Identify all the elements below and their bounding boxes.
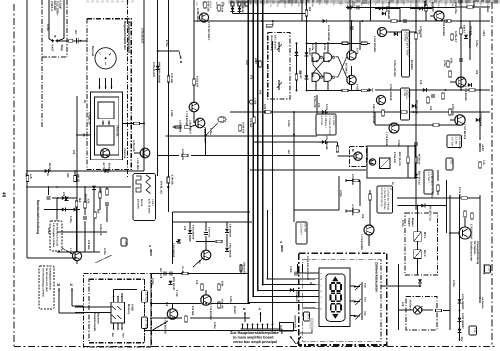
svg-text:2 695-38 1717: 2 695-38 1717: [203, 127, 206, 143]
display pin numbers: [320, 273, 323, 310]
wire vertical V10: [193, 0, 195, 103]
svg-text:47k: 47k: [317, 103, 320, 108]
junction J2: [26, 170, 28, 172]
svg-text:BZX 55-C10: BZX 55-C10: [398, 152, 401, 166]
wire lamp right: [422, 309, 433, 311]
resistor R114: [94, 212, 97, 218]
junction mo feed: [417, 205, 419, 207]
svg-text:C.78 563: C.78 563: [431, 188, 434, 199]
diode D70: [188, 230, 192, 234]
svg-text:0.002 1N4148: 0.002 1N4148: [172, 243, 175, 258]
capacitor C82: [295, 272, 297, 276]
tag LE7023 a: [142, 291, 148, 303]
svg-text:Schalttransistor: Schalttransistor: [470, 241, 473, 261]
wire bm h2: [150, 303, 201, 305]
svg-text:47k: 47k: [475, 70, 478, 75]
resistor R23b: [167, 76, 170, 82]
wire vertical V18: [301, 0, 303, 21]
wire vertical bus V13: [257, 0, 259, 291]
svg-text:Regelautomatik der: Regelautomatik der: [123, 21, 127, 51]
wire H down: [71, 300, 73, 306]
arrow right edge up: [479, 296, 481, 303]
junction disp1: [267, 278, 269, 280]
wire T81 up: [205, 290, 207, 295]
seven segment digit 2: [331, 293, 341, 301]
junction jt23: [257, 20, 259, 22]
wire T31 collector: [351, 66, 353, 75]
wire stub A2: [346, 210, 360, 212]
scan smudge band top: [228, 0, 500, 4]
counter module inner dash-dot box: [302, 260, 381, 342]
svg-text:0.78u BA127: 0.78u BA127: [152, 62, 155, 78]
svg-text:1N4148: 1N4148: [48, 163, 51, 173]
wire memory top v1: [113, 290, 115, 297]
wire T45 base: [450, 119, 455, 121]
svg-text:6V: 6V: [83, 100, 86, 103]
wire display in 2: [263, 284, 316, 286]
wire sw feed 2: [350, 300, 354, 302]
svg-text:870k: 870k: [221, 281, 224, 287]
svg-text:47k 563: 47k 563: [87, 240, 90, 250]
svg-text:Umschaltung: Umschaltung: [270, 35, 273, 51]
wire cl v5: [226, 222, 228, 228]
wire v24 down: [415, 130, 417, 210]
tape head assembly inner box: [95, 97, 119, 155]
junction gates6: [296, 90, 298, 92]
wire T30 collector upper: [351, 21, 353, 43]
resistor R41: [425, 5, 428, 11]
center callout box: [316, 114, 336, 136]
svg-text:5 008: 5 008: [451, 2, 454, 8]
resistor R31: [295, 74, 298, 80]
junction jt12: [293, 134, 295, 136]
wire head left stub: [77, 134, 91, 136]
svg-text:7 764 BC548C: 7 764 BC548C: [442, 20, 445, 36]
diode D11b: [104, 169, 108, 173]
memory switch block S80: [111, 302, 125, 323]
junction jt13: [293, 111, 295, 113]
wire band v3: [76, 207, 78, 252]
wire head right stub: [123, 123, 145, 125]
svg-text:4.7M 63k: 4.7M 63k: [171, 175, 174, 186]
resistor R65: [265, 111, 271, 114]
wire mo v3: [417, 259, 419, 276]
svg-text:0.78u 47k: 0.78u 47k: [451, 104, 454, 116]
svg-text:Ein: Ein: [111, 333, 114, 337]
wire y7 right: [455, 6, 490, 8]
resistor R63: [239, 125, 242, 131]
svg-text:40: 40: [2, 192, 7, 198]
display outer box: [319, 268, 350, 327]
capacitor C31: [357, 6, 359, 10]
capacitor C115: [83, 217, 87, 219]
svg-text:Doppel-: Doppel-: [408, 218, 411, 227]
motor dash-dot box: [350, 147, 367, 167]
svg-text:0.78u: 0.78u: [401, 220, 404, 227]
svg-text:4n7 0.78: 4n7 0.78: [159, 268, 162, 279]
junction jt5b: [361, 20, 363, 22]
svg-text:C10: C10: [488, 267, 491, 272]
resistor R72: [369, 194, 372, 200]
wire motor left: [338, 155, 354, 157]
svg-text:LA 1: LA 1: [420, 306, 423, 312]
wire d91 rail: [398, 205, 447, 207]
diode D93: [458, 318, 462, 322]
capacitor C41: [459, 59, 463, 61]
arrow counter bl: [297, 336, 301, 344]
svg-text:5V: 5V: [279, 325, 282, 328]
svg-text:26.3mV 163: 26.3mV 163: [366, 148, 369, 161]
wire vertical bus V1: [26, 0, 28, 187]
svg-text:5 008: 5 008: [289, 266, 292, 273]
transistor T42: [456, 77, 466, 87]
wire gates bottom bus: [307, 90, 371, 92]
mains module dash-dot bottom edge: [42, 56, 67, 58]
svg-text:Systemsch.: Systemsch.: [294, 315, 297, 329]
terminal tick A1: [345, 179, 347, 182]
wire R120 down: [167, 183, 169, 196]
junction jt10: [415, 111, 417, 113]
svg-text:0.78u 47k 563: 0.78u 47k 563: [393, 60, 396, 77]
terminal dot R120: [167, 186, 169, 188]
wire band v1: [93, 190, 95, 212]
svg-text:LJ40: LJ40: [124, 240, 127, 246]
resistor R33: [342, 89, 348, 92]
nand gate G4: [324, 73, 332, 81]
diode D92: [458, 299, 462, 303]
resistor R82: [201, 284, 204, 290]
wire stub A1: [346, 180, 360, 182]
wire branch B: [158, 50, 179, 52]
wire vertical V3: [63, 0, 65, 39]
diode D43: [412, 104, 416, 108]
resistor R64: [253, 117, 256, 123]
diode D64: [169, 281, 173, 285]
svg-text:100u 0.47: 100u 0.47: [243, 262, 246, 274]
counter module outer dash-dot box: [299, 253, 387, 345]
lamp dash-dot box: [406, 297, 437, 331]
wire v A14: [369, 200, 371, 225]
arrow node A bottom: [259, 312, 261, 322]
wire band row1: [52, 197, 77, 199]
resistor R120: [167, 177, 170, 183]
svg-text:T412: T412: [304, 2, 307, 8]
svg-text:4n7: 4n7: [74, 30, 77, 35]
junction disp4: [252, 296, 254, 298]
wire right col v: [469, 21, 471, 60]
svg-text:LE 7024: LE 7024: [145, 319, 148, 329]
transistor T51: [201, 250, 211, 260]
svg-text:47k: 47k: [250, 75, 253, 80]
frame left dash-dot border: [13, 4, 15, 346]
wire sw feed 1: [350, 285, 354, 287]
svg-text:0.78u: 0.78u: [46, 24, 49, 31]
callout box multiline: [377, 186, 393, 213]
svg-text:1 741 2N3...: 1 741 2N3...: [136, 158, 139, 172]
tag in counter: [304, 312, 310, 321]
frame right dash-dot border: [491, 2, 493, 347]
diode D8: [322, 140, 326, 144]
switch counter S3: [354, 314, 361, 320]
svg-text:680: 680: [97, 209, 100, 214]
display down triangle: [332, 314, 338, 319]
wire right v stub: [415, 125, 417, 140]
svg-text:0.47: 0.47: [245, 60, 248, 66]
wire vertical V27: [459, 195, 461, 338]
transistor T7: [189, 102, 199, 112]
svg-text:WK 55: WK 55: [77, 174, 80, 182]
capacitor C70: [204, 233, 208, 235]
wire vertical branch H13a: [172, 212, 174, 264]
svg-text:verso boc ampli principal: verso boc ampli principal: [233, 340, 277, 344]
svg-text:47k 563: 47k 563: [191, 306, 194, 316]
svg-text:T412: T412: [444, 2, 447, 8]
svg-text:0.80u 1N4148: 0.80u 1N4148: [229, 243, 232, 258]
svg-text:1471: 1471: [307, 314, 310, 320]
svg-text:1.7k: 1.7k: [482, 160, 485, 165]
svg-text:0.80 1N4148: 0.80 1N4148: [229, 224, 232, 238]
wire display in 1: [267, 278, 315, 280]
junction jt6: [306, 20, 308, 22]
diode D71: [177, 239, 181, 243]
resistor R54: [427, 97, 430, 103]
svg-text:1 15: 1 15: [473, 328, 476, 334]
wire r stub: [437, 191, 439, 195]
wire vertical bus V11: [247, 0, 249, 302]
wire vertical V5: [76, 96, 78, 252]
junction jr h3: [444, 89, 446, 91]
tag LJ40: [121, 238, 127, 246]
wire H6 drop to r62 rail: [204, 136, 206, 156]
arrow node A left: [150, 249, 152, 256]
wire band h3: [27, 257, 77, 259]
svg-text:0.78u 47k: 0.78u 47k: [132, 140, 135, 152]
svg-text:5 008: 5 008: [131, 304, 134, 311]
resistor R50: [449, 109, 452, 115]
resistor R61: [184, 126, 190, 129]
junction jt22: [248, 20, 250, 22]
svg-text:BA127: BA127: [308, 48, 311, 56]
connector row ticks: [243, 325, 273, 329]
wire top d101: [410, 8, 432, 10]
memory pin dot 4: [113, 328, 115, 330]
svg-text:BC548: BC548: [407, 90, 410, 98]
wire sw feed 3: [350, 315, 354, 317]
junction disp3: [257, 290, 259, 292]
wire horizontal H14: [173, 221, 253, 223]
svg-text:0.78u 47k: 0.78u 47k: [181, 149, 184, 161]
svg-text:1n 15k: 1n 15k: [181, 266, 184, 274]
junction jt4: [460, 20, 462, 22]
svg-text:Zählwerksbaustein: Zählwerksbaustein: [375, 262, 379, 292]
wire vertical bus V1 lower: [26, 187, 28, 258]
nand gate G3: [312, 73, 320, 81]
junction jt5: [351, 20, 353, 22]
diode D44: [476, 118, 480, 122]
svg-text:FL: FL: [315, 60, 318, 63]
resistor R44: [460, 28, 463, 34]
wire horizontal H11: [397, 197, 480, 199]
diode D47: [369, 88, 373, 92]
svg-text:47k 563: 47k 563: [249, 118, 252, 128]
svg-text:1.185: 1.185: [170, 110, 173, 117]
switch S30 inside speed box: [277, 42, 282, 52]
wire horizontal H12: [294, 209, 339, 211]
svg-text:BA127: BA127: [108, 163, 111, 172]
memory pin dot 5: [117, 328, 119, 330]
wire bm h5: [190, 317, 250, 319]
resistor R57: [407, 157, 410, 163]
mains module dash-dot right edge: [66, 0, 68, 57]
small circle inside sub-box: [369, 159, 375, 165]
transistor T41 BC548C: [434, 11, 444, 21]
resistor R71: [353, 210, 359, 213]
svg-text:1 760 BC548: 1 760 BC548: [464, 86, 467, 101]
wire counter right link: [381, 285, 399, 287]
nand gate G2: [324, 53, 332, 61]
resistor R83: [218, 284, 221, 290]
capacitor C40: [404, 19, 406, 23]
resistor R117: [84, 202, 87, 208]
junction jr h5: [412, 111, 414, 113]
svg-text:2k2: 2k2: [308, 7, 311, 12]
transistor T90 power switch circle: [459, 227, 471, 239]
diode D34: [347, 6, 351, 10]
wire vertical V2: [48, 0, 50, 39]
wire h2 tick: [374, 112, 376, 125]
svg-text:C401: C401: [290, 2, 293, 8]
diode D45: [423, 88, 427, 92]
arrow mainboard: [290, 336, 296, 344]
svg-text:2k2: 2k2: [255, 60, 258, 65]
wire horizontal H7: [254, 141, 337, 143]
heavy vertical top x370: [370, 0, 372, 21]
svg-text:M: M: [57, 283, 60, 287]
callout near A: [296, 222, 307, 244]
svg-text:1 711 BC548C: 1 711 BC548C: [360, 234, 363, 250]
junction jt17: [157, 50, 159, 52]
wire T31 emitter down: [351, 85, 353, 91]
memory pin dot 6: [121, 328, 123, 330]
arrow T1 base: [194, 20, 200, 22]
wire horizontal H3: [375, 89, 490, 91]
diode D12: [62, 196, 66, 200]
resistor R53: [442, 93, 445, 99]
wire T8 down to H6: [204, 128, 206, 136]
junction J5: [93, 186, 95, 188]
junction J7: [157, 50, 159, 52]
wire M right: [59, 312, 84, 314]
diode D91: [421, 204, 425, 208]
diode D90: [418, 279, 422, 283]
svg-text:241-584: 241-584: [53, 1, 56, 11]
capacitor C114: [105, 203, 109, 205]
svg-text:3.3V bei: 3.3V bei: [320, 116, 323, 126]
svg-text:Aus: Aus: [122, 333, 125, 338]
wire band v10: [99, 198, 101, 210]
arrow node A right: [281, 245, 283, 252]
svg-text:6.70u 1N4148: 6.70u 1N4148: [325, 134, 328, 150]
wire vertical V23: [415, 0, 417, 130]
capacitor C113: [55, 221, 59, 223]
junction mo: [398, 285, 400, 287]
resistor R32: [342, 42, 348, 45]
svg-text:< 19 >: < 19 >: [151, 199, 154, 207]
label box tiny right: [446, 158, 453, 170]
resistor R55: [415, 157, 418, 163]
svg-text:2.787 47u: 2.787 47u: [208, 227, 211, 238]
wire lamp to diode col: [443, 310, 450, 312]
junction jt18: [143, 123, 145, 125]
trim pot wiper: [380, 158, 391, 169]
wire top right stub: [375, 8, 400, 10]
svg-text:5V: 5V: [309, 282, 312, 285]
wire vertical V30: [398, 264, 400, 330]
wire band h1: [57, 251, 100, 253]
resistor R80: [182, 272, 188, 275]
capacitor C42: [431, 95, 435, 97]
svg-text:1.17 ber >: 1.17 ber >: [427, 172, 430, 184]
wire vertical V7: [143, 0, 145, 171]
svg-text:BA127: BA127: [299, 71, 302, 79]
arrow to B: [179, 51, 181, 59]
junction gates3: [315, 42, 317, 44]
svg-text:0.78u: 0.78u: [323, 44, 326, 51]
svg-text:553: 553: [450, 160, 453, 165]
wire mo v2: [417, 241, 419, 250]
junction jt14: [257, 141, 259, 143]
resistor R84: [218, 302, 221, 308]
wire gate cross-coupling: [313, 57, 347, 79]
resistor R23: [218, 5, 221, 11]
diode D30: [305, 52, 309, 56]
wire horizontal top bus H1: [233, 13, 307, 15]
note box bottom-left: [39, 266, 54, 309]
svg-text:6 766 BC548C: 6 766 BC548C: [373, 36, 376, 52]
waveform squarewave glyph 1: [136, 176, 141, 192]
tag LE7023 b: [142, 317, 148, 329]
svg-text:L 639: L 639: [254, 98, 257, 105]
capacitor C101 inline rect: [69, 39, 73, 42]
wire h r62: [158, 155, 179, 157]
svg-text:S20: S20: [66, 173, 69, 178]
wire top cluster v1: [232, 6, 234, 14]
svg-text:1.5V bei grün 1.7kOhm: 1.5V bei grün 1.7kOhm: [52, 223, 55, 247]
wire tr cluster h: [387, 31, 416, 33]
svg-text:0.78u BA127: 0.78u BA127: [141, 28, 144, 44]
wire horizontal H4: [230, 111, 380, 113]
junction jt7: [261, 20, 263, 22]
capacitor C43: [414, 143, 418, 145]
control sub-box right-center: [367, 146, 415, 178]
resistor R70: [353, 179, 359, 182]
junction jt3: [415, 20, 417, 22]
svg-text:(al. Passe): (al. Passe): [458, 137, 461, 150]
svg-text:DK 361 mit LJ v1 (C6): DK 361 mit LJ v1 (C6): [56, 223, 59, 246]
connector row line bottom: [241, 328, 282, 330]
svg-text:MO 2: MO 2: [423, 250, 426, 257]
connector drop line: [281, 329, 283, 334]
wire v A12: [359, 181, 361, 207]
seven segment digit 3: [331, 304, 341, 312]
svg-text:bei 19: bei 19: [140, 199, 143, 207]
tag bottom right: [469, 326, 477, 335]
wire bm top: [150, 273, 248, 275]
svg-text:CR-(II 9)a: CR-(II 9)a: [116, 125, 119, 137]
wire mo down2: [419, 284, 421, 286]
svg-text:0.70u: 0.70u: [472, 1, 475, 8]
resistor R118: [99, 192, 102, 198]
